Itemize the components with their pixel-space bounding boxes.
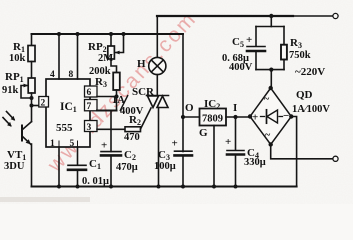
- svg-text:10k: 10k: [9, 53, 26, 64]
- wire 200k down: [116, 90, 118, 111]
- wire O pin: [183, 116, 200, 118]
- wire Vcc bus (9V rail): [32, 33, 184, 35]
- svg-text:1A∕100V: 1A∕100V: [292, 104, 330, 115]
- resistor R3: [283, 27, 285, 45]
- capacitor C1: [68, 164, 86, 166]
- wire RP2 to R200k: [111, 59, 117, 73]
- op IC2 7809 box: [200, 109, 227, 126]
- watermark www.dzscans.com: [43, 7, 202, 177]
- RP2 wiper arm: [115, 34, 124, 53]
- svg-text:G: G: [199, 127, 208, 139]
- svg-text:~: ~: [264, 94, 270, 105]
- svg-text:+: +: [225, 136, 231, 148]
- wire parallel top rail: [256, 26, 284, 28]
- wire lamp to SCR: [156, 75, 158, 96]
- capacitor C4: [235, 117, 237, 150]
- terminal bottom-right (AC input): [333, 156, 338, 161]
- pin1 notch tick: [58, 141, 60, 147]
- svg-text:8: 8: [69, 70, 74, 80]
- wire pin6: [97, 96, 117, 98]
- potentiometer RP1 body: [28, 78, 35, 93]
- svg-text:3: 3: [87, 123, 92, 133]
- wire pin3 to R2: [97, 128, 125, 130]
- node pin6 junction: [114, 94, 118, 98]
- svg-text:SCR: SCR: [132, 86, 155, 98]
- svg-text:5: 5: [70, 139, 75, 149]
- svg-text:+: +: [246, 34, 252, 46]
- wire pin8 stub: [77, 34, 79, 79]
- wire top mains bus: [157, 15, 293, 17]
- wire RP1 down to VT1: [31, 93, 33, 122]
- svg-text:I: I: [233, 102, 237, 114]
- svg-text:7: 7: [87, 102, 92, 112]
- svg-text:100μ: 100μ: [154, 161, 176, 172]
- svg-text:4: 4: [50, 70, 55, 80]
- phototransistor VT1: [23, 122, 32, 130]
- svg-text:O: O: [185, 102, 194, 114]
- wire 9V rail down (O node): [182, 34, 184, 152]
- terminal top-right (AC input): [333, 13, 338, 18]
- resistor 200k body: [113, 73, 120, 91]
- wire ground bus: [32, 186, 297, 188]
- svg-text:+: +: [252, 112, 258, 124]
- capacitor C2: [101, 151, 121, 153]
- wire R1 top lead: [31, 34, 33, 46]
- RP1 wiper arm: [21, 86, 32, 99]
- svg-text:91k: 91k: [2, 85, 19, 96]
- op IC1 555 box: [46, 79, 90, 147]
- wire SCR cathode down to ground bus: [158, 108, 160, 187]
- svg-text:330μ: 330μ: [244, 157, 266, 168]
- wire lamp branch vertical: [156, 16, 158, 58]
- wire R1 to RP1: [31, 62, 33, 79]
- svg-text:470μ: 470μ: [116, 162, 138, 173]
- capacitor C5: [255, 27, 257, 46]
- svg-text:750k: 750k: [289, 50, 311, 61]
- svg-text:400V: 400V: [229, 62, 253, 73]
- svg-text:+: +: [172, 138, 178, 150]
- diode inside bridge: [261, 116, 265, 118]
- wire pin1 stub: [58, 147, 60, 187]
- wire parallel bottom rail: [256, 69, 284, 71]
- wire pin2 stub: [32, 105, 40, 107]
- svg-text:QD: QD: [296, 89, 313, 101]
- svg-text:555: 555: [56, 122, 73, 134]
- svg-text:400V: 400V: [120, 106, 144, 117]
- wire SCR gate diagonal: [141, 108, 152, 129]
- potentiometer RP2 body: [108, 46, 115, 59]
- node C4 tap: [233, 115, 237, 119]
- wire bridge right vertex down to ground bus: [291, 117, 296, 187]
- lamp H: [149, 57, 166, 74]
- svg-text:7809: 7809: [202, 114, 223, 125]
- wire pin5 to C1: [77, 147, 79, 165]
- svg-text:3DU: 3DU: [4, 161, 25, 172]
- wire pin7: [97, 110, 117, 112]
- svg-text:0. 01μ: 0. 01μ: [82, 176, 109, 187]
- svg-text:~220V: ~220V: [295, 66, 325, 78]
- wire to bridge top: [270, 70, 272, 88]
- wire C5/R3 branch from top bus: [270, 16, 272, 27]
- triac SCR symbol: [147, 95, 169, 97]
- node pin2 tap: [30, 104, 34, 108]
- resistor R1 body: [28, 46, 35, 62]
- wire pin7 node down to C2: [110, 111, 112, 152]
- wire bridge negative output to AC terminal: [271, 145, 333, 159]
- pin2 notch: [39, 97, 49, 108]
- wire G pin to ground: [213, 126, 215, 187]
- pin5 notch tick: [77, 141, 79, 147]
- pin6 notch: [85, 86, 98, 97]
- VT1 light arrows: [7, 112, 15, 120]
- resistor R2 body: [125, 127, 141, 132]
- pin3 notch: [85, 121, 98, 132]
- svg-text:~: ~: [265, 130, 271, 141]
- capacitor C3: [175, 150, 193, 152]
- wire pin4 stub: [58, 34, 60, 79]
- svg-text:−: −: [283, 110, 289, 122]
- pin7 notch: [85, 100, 98, 111]
- svg-text:2M: 2M: [98, 53, 113, 64]
- svg-text:2: 2: [41, 99, 46, 109]
- svg-text:+: +: [101, 140, 107, 152]
- svg-text:470: 470: [124, 132, 140, 143]
- svg-text:1: 1: [50, 139, 55, 149]
- bridge rectifier QD: [250, 88, 291, 145]
- potentiometer RP2 top lead: [110, 34, 112, 46]
- svg-text:H: H: [137, 58, 146, 70]
- node RP1 wiper junction: [30, 96, 34, 100]
- node O junction: [181, 115, 185, 119]
- svg-text:6: 6: [87, 88, 92, 98]
- wire I pin: [226, 116, 250, 118]
